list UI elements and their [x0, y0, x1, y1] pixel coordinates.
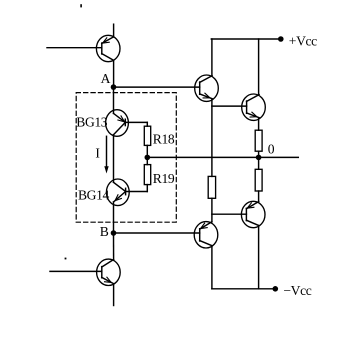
wire node A to T3 base [114, 86, 200, 88]
wire node A down to BG13 [113, 87, 115, 113]
svg-text:0: 0 [268, 142, 275, 157]
wire T1 emitter to node A [113, 60, 115, 87]
wire T1 base lead [47, 47, 102, 49]
transistor T1 (PNP driver, top-left) [96, 35, 120, 61]
node R18/R19 junction [145, 155, 151, 161]
transistor T2 (NPN driver, bottom-left) [97, 259, 121, 285]
wire BG13 base to R18 [146, 122, 148, 126]
transistor BG13 (diode-connected) [106, 110, 148, 137]
wire T3 collector to +Vcc [211, 39, 213, 76]
wire T6 collector to -Vcc [258, 226, 260, 289]
wire T5 collector to -Vcc [211, 246, 213, 289]
wire BG14 to node B [113, 202, 115, 233]
wire node B down to T2 [113, 233, 115, 260]
node A [111, 84, 117, 90]
svg-text:BG14: BG14 [78, 188, 109, 203]
wire resistor to output node to lower resistor [258, 151, 260, 169]
stray scan tick top-left [80, 4, 82, 7]
node +Vcc terminal dot [278, 36, 284, 42]
wire T4 base lead [212, 105, 247, 107]
svg-text:B: B [100, 224, 109, 239]
svg-text:A: A [101, 71, 111, 86]
svg-text:R18: R18 [153, 132, 175, 147]
node -Vcc terminal dot [273, 286, 279, 292]
wire R18 bottom to junction [146, 145, 148, 157]
wire T3 emitter down through crossing to resistor [211, 99, 213, 177]
node B [111, 230, 117, 236]
transistor BG14 (diode-connected) [106, 179, 147, 206]
node O output dot [256, 155, 262, 161]
svg-text:−Vcc: −Vcc [283, 283, 311, 298]
resistor lower-right (T6 emitter) [255, 169, 262, 191]
wire node B to T5 base [114, 232, 200, 234]
wire R19 bottom to BG14 base [146, 185, 148, 192]
current arrow I [104, 136, 108, 173]
wire T4 collector to +Vcc [258, 39, 260, 95]
resistor R19 [144, 165, 150, 185]
svg-text:BG13: BG13 [76, 115, 107, 130]
wire junction to R19 [146, 157, 148, 164]
wire BG13 to BG14 [113, 135, 115, 183]
wire +Vcc rail [211, 38, 280, 40]
wire T2 emitter bottom stub [113, 284, 115, 306]
wire T1 collector top stub [113, 24, 115, 37]
wire resistor to T5 emitter [211, 198, 213, 222]
transistor T4 (NPN output, upper) [242, 94, 266, 120]
resistor R18 [144, 126, 150, 145]
wire -Vcc rail [212, 288, 275, 290]
stray scan speck [65, 258, 67, 260]
wire output line from R18/R19 junction to the right [147, 156, 298, 158]
wire lower resistor to T6 emitter [258, 191, 260, 202]
transistor T5 (PNP, lower driver of darlington) [194, 222, 218, 248]
wire T4 emitter to upper output resistor [258, 118, 260, 131]
dashed enclosure box [76, 93, 176, 223]
transistor T3 (NPN, upper driver of darlington) [195, 75, 219, 101]
svg-text:R19: R19 [153, 171, 175, 186]
resistor upper-right (T4 emitter) [255, 130, 262, 151]
wire T2 base lead [50, 270, 102, 272]
svg-text:+Vcc: +Vcc [289, 34, 317, 49]
wire T6 base lead [212, 213, 247, 215]
transistor T6 (PNP output, lower) [241, 201, 265, 227]
resistor middle column (between driver emitters) [208, 176, 215, 198]
